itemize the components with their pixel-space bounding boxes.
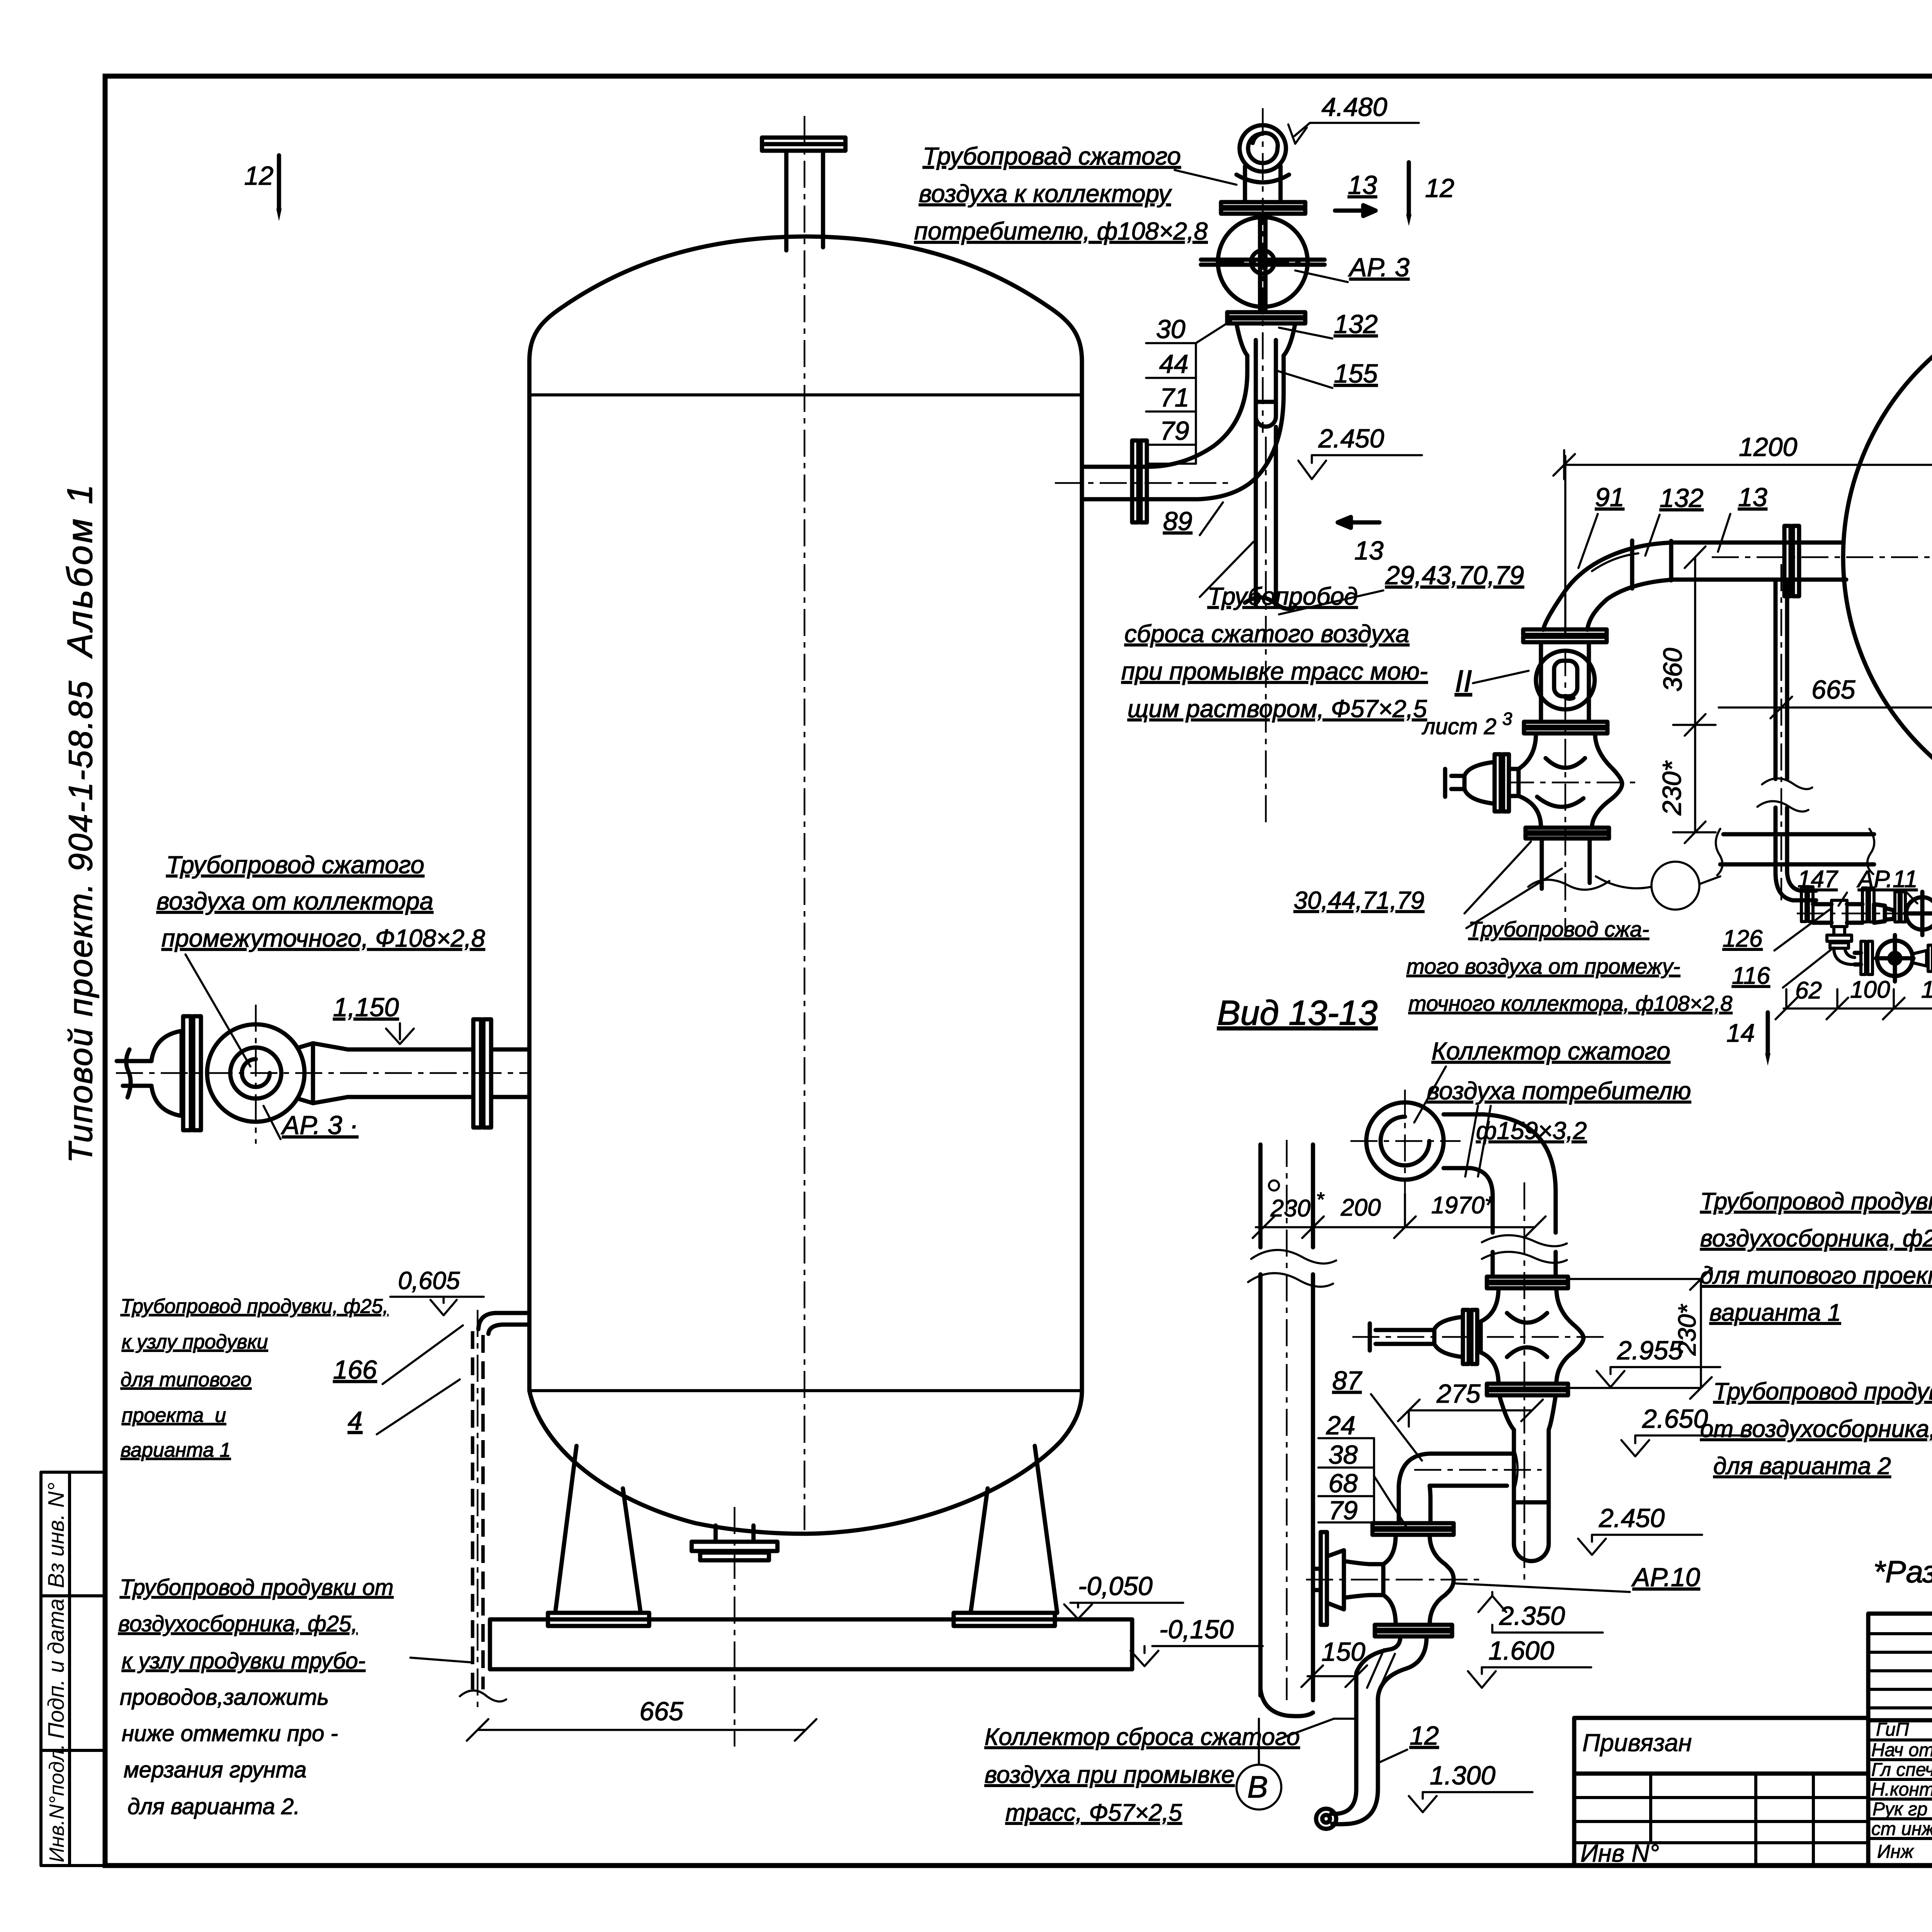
blowdown pipe centerline bbox=[477, 1310, 479, 1712]
note: pipe from intermediate collector bbox=[1406, 917, 1732, 1015]
svg-text:1.300: 1.300 bbox=[1430, 1761, 1495, 1790]
union pair lower bbox=[1861, 941, 1872, 975]
dip pipe continuing down bbox=[1245, 417, 1295, 609]
svg-text:126: 126 bbox=[1723, 925, 1763, 952]
label 132 top bbox=[1645, 483, 1703, 556]
note: blowdown variant2 text block bbox=[1700, 1378, 1932, 1480]
svg-text:30,44,71,79: 30,44,71,79 bbox=[1294, 886, 1424, 914]
svg-text:3: 3 bbox=[1502, 709, 1512, 729]
dim 4.480 bbox=[1288, 92, 1419, 144]
flange above tee bbox=[1487, 1277, 1568, 1288]
side elbow into tube bbox=[1399, 1451, 1518, 1523]
svg-text:665: 665 bbox=[1811, 675, 1855, 704]
assembly centerline bbox=[1262, 108, 1264, 433]
svg-text:14: 14 bbox=[1726, 1019, 1755, 1047]
elbow from collector bbox=[1444, 1114, 1556, 1233]
bubble squiggle leaders bbox=[1596, 876, 1651, 888]
svg-text:4.480: 4.480 bbox=[1321, 92, 1387, 122]
svg-text:2.450: 2.450 bbox=[1599, 1503, 1665, 1533]
riser pipe left with break bbox=[1260, 1145, 1313, 1700]
svg-text:воздуха от коллектора: воздуха от коллектора bbox=[156, 887, 433, 915]
top nozzle flange bbox=[762, 138, 845, 151]
big circle (tank top view) bbox=[1843, 288, 1932, 827]
svg-text:Трубопробод: Трубопробод bbox=[1207, 582, 1358, 610]
eye inner spiral bbox=[1248, 133, 1278, 163]
valve vertical centerline bbox=[255, 1005, 257, 1144]
vertical dim 360 / 230* bbox=[1673, 546, 1716, 843]
svg-text:13: 13 bbox=[1738, 483, 1767, 512]
svg-text:1970*: 1970* bbox=[1431, 1192, 1495, 1219]
wide pipe from II valve to right with break bbox=[1716, 829, 1874, 875]
small circle mark bbox=[1269, 1180, 1279, 1190]
note: blowdown pipe variant 1 text bbox=[121, 1295, 388, 1461]
level 2.450 bbox=[1578, 1503, 1702, 1555]
leader from text to pipe bbox=[1200, 542, 1253, 597]
union pair 1 bbox=[1801, 887, 1813, 922]
bracket bbox=[1318, 1438, 1406, 1527]
foundation slab bbox=[490, 1619, 1132, 1669]
branch down from tee bbox=[1827, 935, 1855, 964]
dim 230* vertical bbox=[1568, 1268, 1712, 1399]
cone below flange bbox=[1236, 323, 1295, 371]
svg-text:360: 360 bbox=[1658, 648, 1687, 692]
note: compressed air to consumer collector (left instance) bbox=[914, 142, 1208, 245]
flange below side elbow bbox=[1372, 1523, 1454, 1535]
eye loop top bbox=[1240, 125, 1286, 172]
valve AP.3 left flange bbox=[183, 1016, 201, 1130]
bottom nozzle bbox=[692, 1526, 777, 1560]
label 87 bbox=[1332, 1366, 1422, 1461]
svg-text:воздуха к коллектору: воздуха к коллектору bbox=[919, 180, 1172, 207]
tee valve body bbox=[1481, 1288, 1583, 1384]
svg-text:Альбом 1: Альбом 1 bbox=[60, 482, 100, 659]
svg-text:44: 44 bbox=[1159, 349, 1189, 379]
reducer cone bbox=[1874, 904, 1894, 923]
svg-text:62: 62 bbox=[1795, 977, 1822, 1004]
left pipe of top view bbox=[1673, 543, 1846, 580]
svg-text:потребителю, ф108×2,8: потребителю, ф108×2,8 bbox=[914, 217, 1208, 245]
svg-text:Нач отд: Нач отд bbox=[1871, 1740, 1932, 1760]
svg-text:для варианта 2: для варианта 2 bbox=[1713, 1453, 1891, 1480]
break squiggle bbox=[1528, 880, 1609, 890]
side view centerline bbox=[116, 1072, 529, 1074]
cone + unions right bbox=[1913, 945, 1932, 971]
tank vertical centerline bbox=[804, 116, 806, 1530]
svg-text:0,605: 0,605 bbox=[398, 1267, 460, 1294]
lower flange bbox=[1227, 312, 1305, 323]
svg-text:147: 147 bbox=[1798, 866, 1838, 893]
svg-text:Привязан: Привязан bbox=[1582, 1729, 1692, 1757]
position bubble circle bbox=[1651, 862, 1699, 910]
right flange pair bbox=[473, 1019, 491, 1128]
union pair 2 bbox=[1862, 888, 1874, 922]
valve center circle bbox=[1251, 250, 1274, 274]
section mark 12 (vertical bar) bbox=[1406, 162, 1454, 226]
level 1.600 bbox=[1468, 1636, 1591, 1688]
flange under elbow bbox=[1523, 629, 1607, 642]
leader bbox=[1414, 1066, 1446, 1122]
level 0,605 bbox=[390, 1267, 484, 1315]
flange below tee bbox=[1487, 1384, 1568, 1395]
valve cross stem vertical bbox=[1260, 215, 1265, 309]
svg-text:ГиП: ГиП bbox=[1876, 1719, 1909, 1740]
label 89 bbox=[1163, 502, 1223, 536]
handwheel left bbox=[1314, 1532, 1383, 1625]
section mark 13 (top, arrow right) bbox=[1335, 170, 1377, 216]
thin vertical pipe from left pipe down bbox=[1757, 580, 1812, 872]
drop break slashes bbox=[1367, 1649, 1395, 1692]
svg-text:воздухосборника, ф25,: воздухосборника, ф25, bbox=[1700, 1225, 1932, 1252]
flange on left pipe bbox=[1784, 526, 1799, 596]
svg-text:того воздуха от промежу-: того воздуха от промежу- bbox=[1406, 954, 1680, 978]
pipe to tee bbox=[1813, 904, 1832, 923]
svg-text:варианта 1: варианта 1 bbox=[121, 1439, 231, 1461]
circle horizontal centerline bbox=[1712, 556, 1932, 558]
dim 1,150 bbox=[333, 993, 414, 1044]
title block outer bbox=[1868, 1614, 1932, 1866]
label 91 bbox=[1578, 483, 1624, 568]
pipe to tank bbox=[491, 1049, 529, 1097]
tank bottom weld line bbox=[529, 1389, 1082, 1392]
label 132 bbox=[1279, 310, 1378, 339]
dim 2.450 bbox=[1298, 424, 1422, 479]
svg-text:29,43,70,79: 29,43,70,79 bbox=[1385, 561, 1524, 590]
tank bottom dome bbox=[529, 1391, 1082, 1534]
svg-text:Коллектор сброса сжатого: Коллектор сброса сжатого bbox=[985, 1724, 1300, 1750]
elbow down to valve bbox=[1543, 541, 1673, 630]
svg-text:В: В bbox=[1247, 1770, 1268, 1804]
svg-text:проекта и: проекта и bbox=[122, 1404, 226, 1427]
valve body right cone bbox=[298, 1043, 473, 1103]
dim 665 top view bbox=[1719, 675, 1932, 718]
level 2.650 bbox=[1621, 1404, 1747, 1456]
svg-text:ст инж: ст инж bbox=[1871, 1819, 1932, 1839]
approval labels bbox=[1871, 1719, 1932, 1862]
level 2.350 bbox=[1478, 1592, 1603, 1633]
svg-text:91: 91 bbox=[1595, 483, 1624, 512]
svg-text:воздухосборника, ф25,: воздухосборника, ф25, bbox=[118, 1611, 357, 1636]
side pipe centerline bbox=[1414, 1469, 1542, 1471]
pipe bbox=[1847, 904, 1862, 923]
svg-text:155: 155 bbox=[1334, 359, 1378, 388]
svg-text:1,150: 1,150 bbox=[333, 993, 399, 1022]
svg-text:166: 166 bbox=[333, 1355, 377, 1384]
svg-text:точного коллектора, ф108×2,8: точного коллектора, ф108×2,8 bbox=[1408, 991, 1732, 1015]
pipe centerline bbox=[1055, 482, 1229, 484]
svg-text:Трубопровод продувки, ф25,: Трубопровод продувки, ф25, bbox=[121, 1295, 388, 1318]
union pair 3 bbox=[1895, 892, 1905, 922]
name rows bbox=[1868, 1738, 1932, 1742]
valve centerline down bbox=[1565, 649, 1566, 931]
label 12 bbox=[1380, 1721, 1439, 1762]
left margin attribute boxes bbox=[41, 1472, 105, 1866]
outer drop pipe bbox=[1145, 355, 1284, 467]
svg-text:Инв.N°подл.: Инв.N°подл. bbox=[45, 1744, 68, 1862]
dim 150 bbox=[1301, 1637, 1367, 1687]
centerline of AP line bbox=[1797, 913, 1932, 915]
svg-text:132: 132 bbox=[1334, 310, 1378, 339]
svg-text:100: 100 bbox=[1921, 976, 1932, 1003]
svg-text:Вз инв. N°: Вз инв. N° bbox=[44, 1482, 69, 1588]
flange below bottom valve bbox=[1375, 1625, 1452, 1636]
valve AP.3 spiral bbox=[242, 1059, 270, 1087]
valve centerline bbox=[1306, 1579, 1480, 1581]
note: collector blow-off text bbox=[985, 1724, 1300, 1826]
valve center dot line bbox=[1217, 261, 1310, 263]
label AP.3 bbox=[1295, 253, 1410, 282]
tee horizontal centerline bbox=[1352, 1336, 1607, 1338]
svg-text:-0,150: -0,150 bbox=[1159, 1615, 1234, 1644]
level mark -0.150 bbox=[1131, 1615, 1263, 1666]
note: pipe from intermediate collector text bbox=[156, 851, 485, 952]
valve cross stem horizontal bbox=[1201, 260, 1325, 265]
svg-text:воздуха потребителю: воздуха потребителю bbox=[1427, 1077, 1691, 1105]
note: blowdown pipe variant 2 text bbox=[118, 1575, 393, 1819]
label 4 bbox=[348, 1379, 460, 1435]
svg-text:АР.10: АР.10 bbox=[1631, 1563, 1700, 1592]
lower line pipe bbox=[1855, 953, 1861, 964]
valve horizontal centerline bbox=[1507, 782, 1638, 784]
svg-text:ниже отметки про -: ниже отметки про - bbox=[122, 1721, 338, 1746]
svg-text:2.350: 2.350 bbox=[1499, 1601, 1565, 1631]
svg-text:варианта 1: варианта 1 bbox=[1709, 1299, 1841, 1326]
svg-text:71: 71 bbox=[1160, 383, 1189, 412]
pipe centerline bbox=[1524, 1182, 1526, 1586]
dim line 230*/200/1970* top bbox=[1253, 1194, 1546, 1238]
II valve bottom flange bbox=[1526, 828, 1609, 838]
level 1.300 bbox=[1409, 1761, 1532, 1812]
svg-text:Коллектор сжатого: Коллектор сжатого bbox=[1432, 1037, 1670, 1065]
top nozzle stem bbox=[786, 151, 823, 250]
inner elbow curve bbox=[1145, 394, 1284, 499]
svg-text:2.955: 2.955 bbox=[1617, 1336, 1683, 1365]
vertical pipe centerline bbox=[1781, 564, 1782, 900]
left leg bbox=[548, 1446, 649, 1626]
svg-text:275: 275 bbox=[1436, 1379, 1481, 1408]
svg-text:12: 12 bbox=[244, 161, 274, 190]
svg-text:Инв N°: Инв N° bbox=[1580, 1839, 1659, 1867]
bottom nozzle axis bbox=[734, 1507, 736, 1747]
svg-text:проводов,заложить: проводов,заложить bbox=[120, 1685, 329, 1710]
dip tube 155 bbox=[1256, 340, 1276, 427]
svg-text:Н.контр.: Н.контр. bbox=[1871, 1779, 1932, 1800]
pipe down from II valve bbox=[1542, 838, 1590, 889]
collector circle bbox=[1366, 1102, 1444, 1180]
svg-text:Трубопровод сжатого: Трубопровод сжатого bbox=[166, 851, 424, 879]
section mark 12 left bbox=[244, 155, 282, 221]
tank top weld line bbox=[529, 393, 1082, 396]
svg-text:2.450: 2.450 bbox=[1318, 424, 1384, 453]
svg-text:2.650: 2.650 bbox=[1642, 1404, 1708, 1434]
level 2.955 bbox=[1597, 1336, 1720, 1387]
valve lower circle bbox=[1876, 935, 1913, 981]
svg-text:*: * bbox=[1316, 1189, 1325, 1211]
svg-text:трасс, Ф57×2,5: трасс, Ф57×2,5 bbox=[1005, 1799, 1182, 1826]
extension line through elbow bbox=[1564, 456, 1566, 634]
svg-text:мерзания грунта: мерзания грунта bbox=[124, 1757, 306, 1782]
neck below eye bbox=[1236, 166, 1289, 202]
collector centerlines bbox=[1350, 1140, 1461, 1142]
svg-text:от воздухосборника, ф25: от воздухосборника, ф25 bbox=[1700, 1416, 1932, 1442]
inlet bell reducer bbox=[151, 1031, 182, 1116]
leader bbox=[1285, 1719, 1356, 1737]
svg-text:100: 100 bbox=[1850, 976, 1890, 1003]
svg-text:воздуха при промывке: воздуха при промывке bbox=[985, 1762, 1235, 1788]
svg-text:Рук гр: Рук гр bbox=[1872, 1799, 1927, 1820]
svg-text:-0,050: -0,050 bbox=[1078, 1571, 1153, 1601]
leader bbox=[1175, 170, 1236, 185]
label 126 bbox=[1723, 909, 1831, 952]
svg-text:12: 12 bbox=[1425, 173, 1454, 203]
bottom valve with handwheel bbox=[1383, 1535, 1454, 1625]
valve AP.3 inner circle bbox=[230, 1048, 281, 1099]
valve AP.3 body circle bbox=[207, 1024, 304, 1122]
cone to dip tube bbox=[1499, 1395, 1556, 1434]
leader to AP.3 valve bbox=[185, 954, 250, 1066]
svg-text:к узлу продувки трубо-: к узлу продувки трубо- bbox=[122, 1648, 366, 1673]
upper flange bbox=[1221, 202, 1305, 214]
svg-text:для типового: для типового bbox=[121, 1369, 252, 1391]
AP.11 line pipe bbox=[1793, 891, 1816, 900]
dip tube with round bottom bbox=[1514, 1430, 1549, 1561]
label AP.11 bbox=[1856, 866, 1918, 903]
labels 24 38 68 79 bbox=[1326, 1411, 1358, 1525]
II valve left bonnet bbox=[1445, 754, 1519, 811]
svg-text:89: 89 bbox=[1163, 507, 1192, 536]
svg-text:Трубопровад сжатого: Трубопровад сжатого bbox=[923, 142, 1181, 170]
svg-text:промежуточного, Ф108×2,8: промежуточного, Ф108×2,8 bbox=[162, 924, 485, 952]
elbow break slashes bbox=[1465, 1106, 1491, 1177]
svg-text:230*: 230* bbox=[1657, 760, 1687, 816]
label II лист 23 bbox=[1422, 664, 1529, 739]
label AP.10 bbox=[1456, 1563, 1700, 1592]
label 29,43,70,79 bbox=[1279, 561, 1524, 614]
label 30,44,71,79 bbox=[1294, 842, 1531, 914]
svg-text:Трубопровод продувки: Трубопровод продувки bbox=[1713, 1378, 1932, 1405]
svg-text:II: II bbox=[1455, 664, 1472, 698]
tee left bonnet + stem bbox=[1370, 1310, 1477, 1364]
svg-text:38: 38 bbox=[1328, 1440, 1358, 1469]
note: blowdown variant1 text block bbox=[1700, 1188, 1932, 1326]
underground dashed blowdown pipe bbox=[473, 1331, 483, 1689]
svg-text:Гл спеч: Гл спеч bbox=[1871, 1760, 1932, 1780]
valve body circle AP.3 bbox=[1218, 217, 1308, 307]
tank shell bbox=[529, 236, 1082, 1391]
svg-text:79: 79 bbox=[1328, 1496, 1358, 1525]
svg-text:1200: 1200 bbox=[1739, 432, 1797, 462]
dim line 1200/1000 bbox=[1553, 450, 1932, 479]
II valve top flange bbox=[1524, 722, 1607, 733]
tee 147 bbox=[1832, 900, 1847, 935]
label 13 top bbox=[1718, 483, 1767, 552]
svg-text:Подп. и дата: Подп. и дата bbox=[44, 1599, 69, 1739]
svg-text:Инж: Инж bbox=[1877, 1842, 1914, 1862]
leader bbox=[1466, 869, 1562, 928]
note: blow-off pipe text bbox=[1121, 582, 1428, 723]
marker B circle bbox=[1236, 1689, 1313, 1810]
horizontal pipe to tank bbox=[1082, 467, 1145, 499]
svg-text:87: 87 bbox=[1332, 1366, 1362, 1395]
dimension 665 under tank bbox=[467, 1697, 816, 1741]
down pipe break bbox=[1482, 1235, 1567, 1263]
svg-text:Типовой проект. 904-1-58.85: Типовой проект. 904-1-58.85 bbox=[62, 680, 99, 1163]
svg-text:4: 4 bbox=[348, 1406, 362, 1435]
labels 30 44 71 79 stack bbox=[1156, 315, 1189, 446]
svg-text:Трубопровод продувки от: Трубопровод продувки от bbox=[120, 1575, 393, 1600]
label 147 bbox=[1798, 866, 1847, 906]
svg-text:68: 68 bbox=[1328, 1469, 1358, 1498]
bottom elbow drain bbox=[1316, 1789, 1378, 1829]
stack bracket bbox=[1146, 321, 1231, 464]
svg-text:для варианта 2.: для варианта 2. bbox=[128, 1794, 300, 1819]
svg-text:79: 79 bbox=[1160, 416, 1189, 446]
svg-text:13: 13 bbox=[1354, 536, 1384, 565]
svg-text:1.600: 1.600 bbox=[1488, 1636, 1554, 1665]
sight valve with oval port bbox=[1536, 642, 1595, 722]
leader variant 2 bbox=[410, 1658, 471, 1662]
section mark 13 lower (arrow left) bbox=[1338, 517, 1384, 565]
svg-text:230: 230 bbox=[1270, 1195, 1310, 1222]
blowdown stub at tank left bbox=[478, 1313, 529, 1334]
svg-text:30: 30 bbox=[1156, 315, 1185, 344]
svg-text:116: 116 bbox=[1732, 963, 1770, 989]
svg-text:для типового проекта и: для типового проекта и bbox=[1700, 1262, 1932, 1289]
svg-text:АР. 3: АР. 3 bbox=[1348, 253, 1410, 282]
svg-text:24: 24 bbox=[1326, 1411, 1355, 1440]
label 116 bbox=[1732, 947, 1834, 989]
svg-text:200: 200 bbox=[1340, 1194, 1381, 1221]
svg-text:12: 12 bbox=[1410, 1721, 1439, 1750]
svg-text:АР.11: АР.11 bbox=[1856, 866, 1918, 893]
svg-text:13: 13 bbox=[1348, 170, 1377, 200]
elbow into AP.11 line bbox=[1776, 872, 1801, 900]
svg-text:Трубопровод сжа-: Трубопровод сжа- bbox=[1468, 917, 1649, 941]
dim 275 bbox=[1398, 1379, 1543, 1427]
svg-text:*Размеры для справок: *Размеры для справок bbox=[1873, 1554, 1932, 1589]
svg-text:150: 150 bbox=[1321, 1637, 1366, 1667]
drop pipe centerline bbox=[1265, 437, 1267, 823]
right leg bbox=[954, 1446, 1057, 1626]
svg-text:при промывке трасс мою-: при промывке трасс мою- bbox=[1121, 657, 1428, 685]
svg-text:132: 132 bbox=[1660, 483, 1703, 513]
flange on pipe bbox=[1132, 440, 1147, 522]
II three-way valve body bbox=[1519, 733, 1622, 828]
svg-text:АР. 3 ·: АР. 3 · bbox=[281, 1111, 358, 1140]
note: collector to consumer text bbox=[1427, 1037, 1691, 1145]
upper small rows bbox=[1868, 1632, 1932, 1635]
valve AP.11 circle bbox=[1905, 892, 1932, 935]
label 166 bbox=[333, 1325, 463, 1384]
label 155 bbox=[1275, 359, 1378, 388]
S-drop pipe bbox=[1356, 1636, 1427, 1789]
section mark 14 left bbox=[1726, 1012, 1770, 1066]
svg-text:Вид 13-13: Вид 13-13 bbox=[1217, 994, 1378, 1032]
svg-text:665: 665 bbox=[639, 1697, 684, 1726]
label AP. 3 bbox=[264, 1106, 358, 1140]
riser break squiggles bbox=[1248, 1250, 1336, 1287]
down pipe to flange bbox=[1493, 1252, 1556, 1277]
svg-text:к узлу продувки: к узлу продувки bbox=[122, 1331, 268, 1353]
inlet stub pipe bbox=[117, 1049, 151, 1097]
svg-text:лист 2: лист 2 bbox=[1422, 714, 1497, 739]
svg-text:сброса сжатого воздуха: сброса сжатого воздуха bbox=[1124, 620, 1409, 648]
level mark -0.050 bbox=[1064, 1571, 1183, 1619]
dims 62 100 100 bbox=[1776, 989, 1932, 1019]
svg-text:щим раствором, Ф57×2,5: щим раствором, Ф57×2,5 bbox=[1128, 695, 1427, 723]
pipe end tick bbox=[460, 1690, 506, 1701]
svg-text:Трубопровод продувки от: Трубопровод продувки от bbox=[1700, 1188, 1932, 1215]
